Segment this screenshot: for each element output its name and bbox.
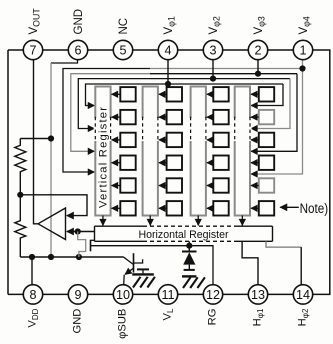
ground: diode ground lower bar [182,275,196,277]
wire: left edge (pin 7 to pin 8) [7,50,9,294]
op-amp: output amplifier [38,208,66,240]
svg-text:GND: GND [72,309,84,334]
resistor R2 [15,195,26,257]
node: pin 1 bus junction [299,65,305,71]
pin circle 8 (bottom) [23,285,42,304]
wire: pin 3 stub to Vphi2 bus [212,50,214,79]
vertical register 1 [95,87,110,216]
wire: pin 8 riser [31,257,33,294]
wire: square col 3 row 6 arrow into register [207,207,213,209]
node: pin 2 bus junction [255,71,261,77]
wire: pin 7 VOUT line to amplifier output [34,50,39,224]
pin circle 13 (bottom) [248,285,267,304]
wire: square col 2 row 3 arrow into register [159,139,167,141]
svg-text:φSUB: φSUB [117,309,129,339]
wire: Q2 emitter arrow to pin 10 [125,268,134,274]
svg-text:4: 4 [164,43,171,57]
sensor square column 2 row 5 [167,178,182,192]
wire: square col 1 row 6 arrow into register [112,207,121,209]
svg-text:3: 3 [209,43,216,57]
wire: rail to Q2 collector diagonal [124,257,134,264]
wire: square col 3 row 2 arrow into register [207,116,213,118]
wire: square col 4 row 5 arrow into register [251,185,259,187]
node: rail-GND line junction [48,254,54,260]
sensor square column 1 row 1 [120,87,135,101]
wire: square col 2 row 2 arrow into register [159,116,167,118]
sensor square column 4 row 1 [259,87,274,101]
sensor square column 4 row 3 [259,133,274,147]
horizontal register box [95,225,144,227]
node: pin 3 bus junction [210,76,216,82]
svg-text:Horizontal Register: Horizontal Register [139,229,229,241]
wire: Vphi1 bus (pin 4) left loop [86,84,284,106]
wire: square col 1 row 3 arrow into register [112,139,121,141]
sensor square column 1 row 6 [120,201,135,215]
svg-text:11: 11 [161,288,174,302]
wire: Q1 drain to horizontal register [91,239,96,241]
node: resistor divider node [17,192,23,198]
break marks: abbreviated rows (dashed register edges) [94,118,97,141]
pin circle 5 (top) [113,40,132,59]
sensor square column 3 row 3 [213,133,228,147]
wire: square col 2 row 1 arrow into register [159,93,167,95]
sensor square column 2 row 6 [167,201,182,215]
ground: substrate ground hatching [133,277,141,288]
node: rail-pin8 junction [29,254,35,260]
wire: vertical register 4 output arrow [241,216,243,226]
svg-text:1: 1 [299,43,306,57]
wire: square col 2 row 6 arrow into register [159,207,167,209]
svg-text:8: 8 [29,288,36,302]
node: pin 4 bus junction [165,81,171,87]
wire: top pin chain (pins 7-1) [8,49,313,51]
pin circle 9 (bottom) [68,285,87,304]
svg-text:14: 14 [296,288,310,302]
wire: Vphi3 bus (pin 2) top run [150,73,297,75]
ground: substrate ground upper bar [137,268,149,270]
wire: pin 6 GND elbow [51,50,78,63]
wire: Vphi4 bus (pin 1) left loop into vertical register [63,69,150,173]
sensor square column 3 row 2 [213,110,228,124]
wire: square col 4 row 1 arrow into register [251,93,259,95]
svg-text:6: 6 [74,43,81,57]
resistor R1 [15,139,26,195]
vertical register 3 [191,87,206,216]
wire: RG line from Q1 to pin 12 [91,246,214,295]
vertical register 4 [235,87,250,216]
wire: pin 4 stub to Vphi1 bus [167,50,169,84]
sensor square column 3 row 5 [213,178,228,192]
node: rail-reset source junction [76,254,82,260]
wire: bottom pin chain (pins 8-14) [8,293,313,295]
svg-text:7: 7 [29,43,36,57]
svg-text:10: 10 [116,288,130,302]
wire: reset drain stub to horizontal register bottom [188,241,190,245]
wire: Vphi2 bus (pin 3) right loop [251,79,290,129]
diode D1 body [183,252,195,264]
wire: vertical register 1 output arrow [102,216,104,226]
sensor square column 4 row 6 [259,201,274,215]
sensor square column 2 row 4 [167,156,182,170]
wire: pin 14 Hphi2 feed to horizontal register [266,241,301,247]
wire: square col 3 row 5 arrow into register [207,185,213,187]
sensor square column 3 row 4 [213,156,228,170]
transistor Q1 channel bar [90,240,92,252]
sensor square column 3 row 1 [213,87,228,101]
wire: pin 6 GND line down left side [50,63,52,257]
pin circle 11 (bottom) [158,285,177,304]
wire: square col 1 row 2 arrow into register [112,116,121,118]
svg-text:13: 13 [251,288,265,302]
wire: Vphi1 bus (pin 4) right loop [251,84,283,106]
wire: square col 2 row 4 arrow into register [159,162,167,164]
svg-text:RG: RG [207,309,219,326]
sensor square column 4 row 2 [259,110,274,124]
wire: square col 3 row 4 arrow into register [207,162,213,164]
wire: horizontal register output into amplifier [67,231,95,233]
wire: square col 4 row 2 arrow into register [251,116,259,118]
sensor square column 2 row 3 [167,133,182,147]
node: RG-diode junction [186,243,192,249]
wire: diode lead from RG line [188,246,190,252]
wire: right edge (pin 1 to pin 14) [313,50,330,294]
pin circle 4 (top) [158,40,177,59]
wire: R1 top tie to GND line [20,138,51,140]
sensor square column 4 row 4 [259,156,274,170]
wire: square col 3 row 1 arrow into register [207,93,213,95]
ground: diode ground hatching [183,277,191,288]
wire: bottom rail (R2 / VDD / GND / sub) [20,256,123,258]
svg-text:NC: NC [118,18,130,35]
svg-text:Note): Note) [300,201,329,216]
sensor square column 2 row 1 [167,87,182,101]
pin circle 10 (bottom) [113,285,132,304]
wire: square col 4 row 3 arrow into register [251,139,259,141]
wire: Vphi3 bus (pin 2) right loop [251,74,297,152]
wire: Vphi2 bus (pin 3) left loop [78,79,290,129]
sensor square column 3 row 6 [213,201,228,215]
svg-text:12: 12 [206,288,220,302]
vertical register 2 [143,87,158,216]
sensor square column 1 row 2 [120,110,135,124]
wire: diode anode lead [188,265,190,270]
transistor Q2 base bar [133,253,135,272]
wire: pin 13 Hphi1 feed to horizontal register [242,241,258,294]
sensor square column 1 row 4 [120,156,135,170]
wire: square col 1 row 5 arrow into register [112,185,121,187]
sensor square column 4 row 5 [259,178,274,192]
wire: note pointer arrow [280,206,299,208]
sensor square column 1 row 3 [120,133,135,147]
wire: bias node feedback into amplifier upper input [20,195,87,216]
wire: square col 1 row 1 arrow into register [112,93,121,95]
ground: diode ground upper bar [184,269,195,271]
wire: vertical register 3 output arrow [197,216,199,226]
svg-text:GND: GND [73,9,85,35]
wire: square col 4 row 4 arrow into register [251,162,259,164]
wire: square col 2 row 5 arrow into register [159,185,167,187]
pin circle 1 (top) [293,40,312,59]
pin circle 6 (top) [68,40,87,59]
transistor Q1 reset MOSFET gate path [78,232,86,258]
wire: Vphi3 bus (pin 2) left loop [71,74,150,152]
pin circle 12 (bottom) [203,285,222,304]
diode D1 cathode bar [182,251,197,253]
svg-text:Vertical Register: Vertical Register [97,107,109,208]
svg-text:9: 9 [74,288,81,302]
wire: pin 2 stub to Vphi3 bus [257,50,259,74]
pin circle 7 (top) [23,40,42,59]
wire: Vphi4 bus (pin 1) top run [150,68,303,70]
wire: square col 1 row 4 arrow into register [112,162,121,164]
node: GND line tee [48,135,54,141]
pin circle 14 (bottom) [293,285,312,304]
wire: square col 3 row 3 arrow into register [207,139,213,141]
sensor square column 1 row 5 [120,178,135,192]
svg-text:2: 2 [254,43,261,57]
node: amplifier input / reset gate tap [75,228,81,234]
pin circle 2 (top) [248,40,267,59]
sensor square column 2 row 2 [167,110,182,124]
pin circle 3 (top) [203,40,222,59]
svg-text:5: 5 [119,43,126,57]
ground: substrate ground lower bar [132,273,154,275]
wire: Q2 base tick [134,259,143,263]
wire: vertical register 2 output arrow [149,216,151,226]
wire: square col 4 row 6 arrow into register [251,207,259,209]
wire: pin 1 stub to Vphi4 bus [302,50,304,69]
wire: Vphi4 bus (pin 1) right loop into vertical register [251,69,302,175]
